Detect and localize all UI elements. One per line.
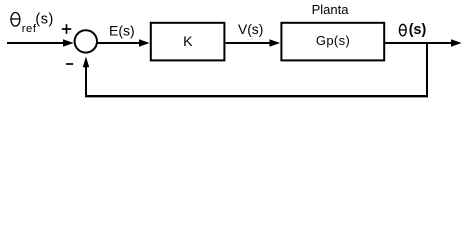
wire output arrow [385, 39, 461, 47]
node theta_ref(s) input label [11, 12, 54, 35]
node minus sign [66, 63, 73, 65]
wire feedback tap vertical [426, 43, 428, 97]
svg-text:Planta: Planta [312, 2, 350, 17]
svg-text:V(s): V(s) [238, 22, 263, 37]
wire feedback rise to summing junction [83, 57, 90, 97]
block Gp(s) plant [281, 23, 384, 61]
node plus sign [62, 28, 72, 30]
svg-text:(s): (s) [409, 22, 427, 38]
node theta(s) output label [399, 22, 426, 38]
wire summing junction to K block [98, 39, 150, 47]
svg-text:(s): (s) [35, 12, 53, 28]
block K controller [151, 23, 225, 61]
summing junction [75, 30, 97, 52]
svg-text:K: K [183, 34, 193, 50]
wire input arrow to summing junction [7, 39, 74, 47]
svg-text:E(s): E(s) [109, 23, 135, 39]
wire feedback bottom horizontal [85, 95, 428, 97]
svg-text:Gp(s): Gp(s) [316, 33, 350, 48]
wire K to Gp block [226, 39, 281, 47]
